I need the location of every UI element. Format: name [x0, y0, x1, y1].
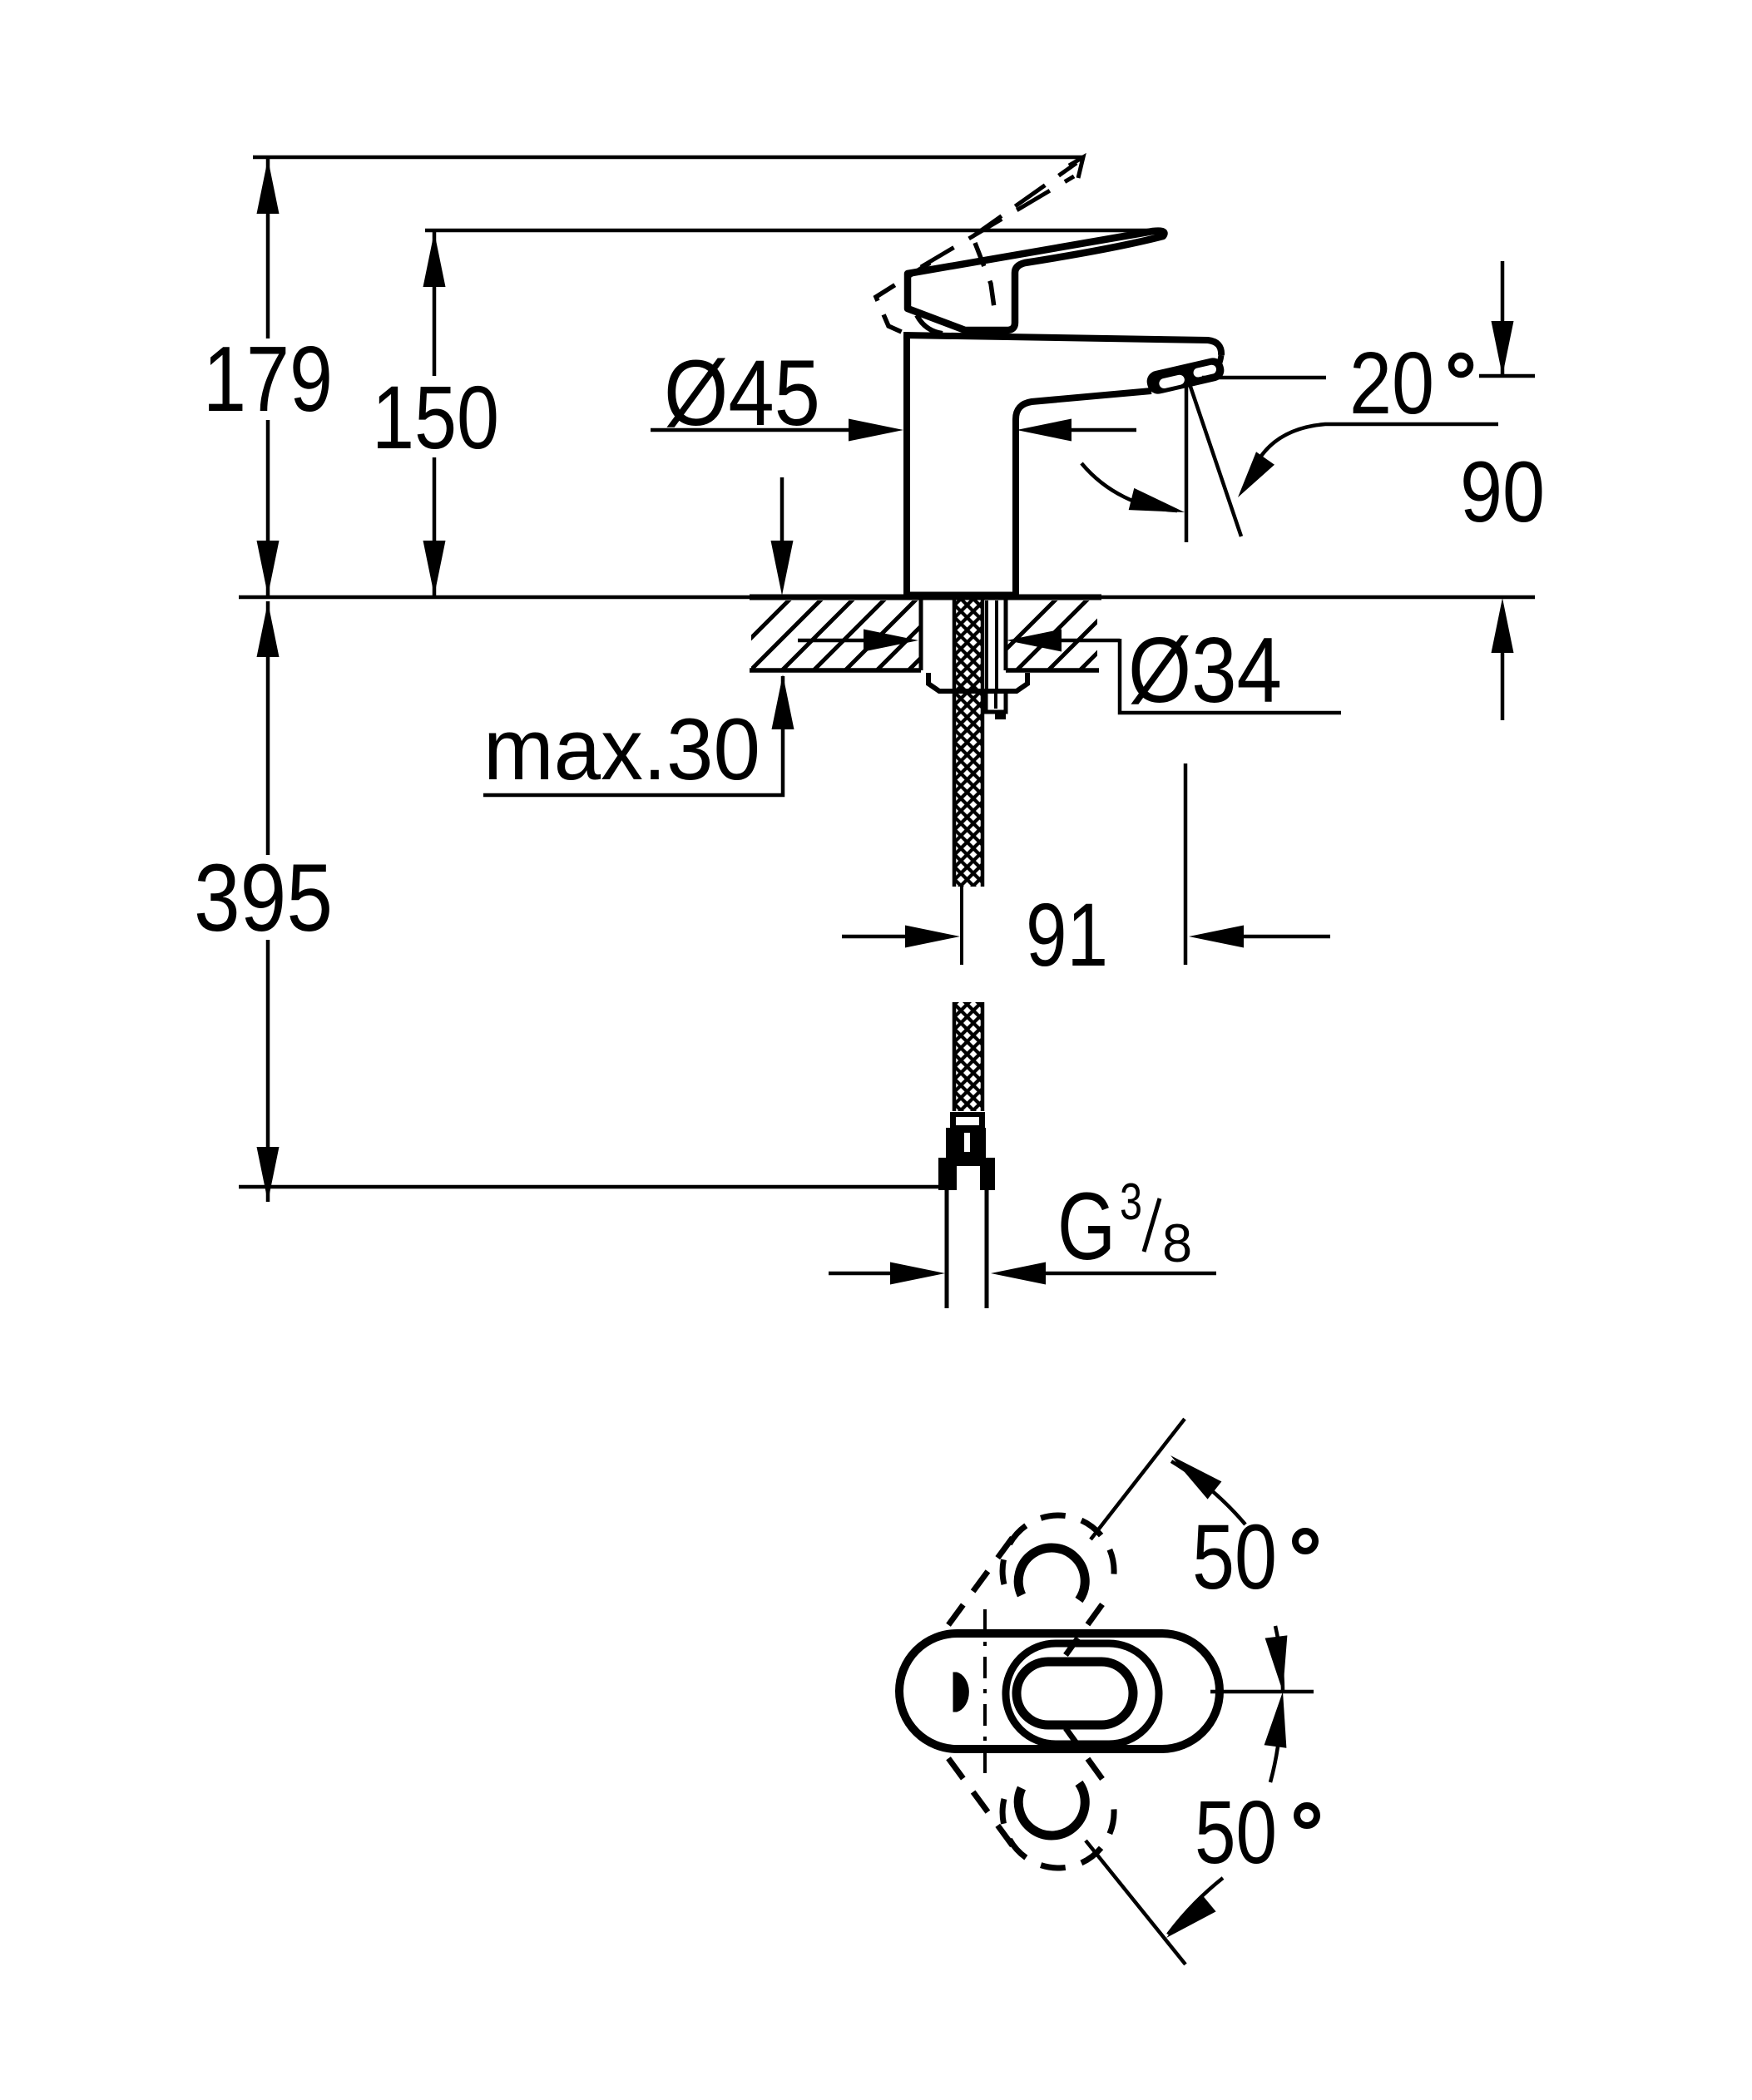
- component plan button dot: [953, 1673, 968, 1712]
- node 20deg leader arrow: [1238, 452, 1274, 497]
- node 90 dim top shaft: [1501, 261, 1505, 376]
- node 150 dimension up arrow: [423, 232, 446, 287]
- component handle raised dashed pivot right: [975, 243, 996, 319]
- svg-text:3: 3: [1120, 1174, 1142, 1231]
- node G38 dim line left: [829, 1272, 890, 1276]
- node 20deg arc left arrow: [1129, 488, 1185, 512]
- component hose braided lower: [953, 1002, 983, 1111]
- wire bottom reference line (hose end): [239, 1185, 939, 1189]
- wire O34 leader elbow: [1120, 639, 1341, 713]
- node O45 right-pointing arrow: [849, 419, 903, 442]
- node 90 dim down arrow: [1492, 321, 1514, 376]
- component tailpipe: [947, 1190, 987, 1308]
- component counter hatching left: [715, 597, 1013, 674]
- wire 50deg upper arc b: [1275, 1626, 1283, 1692]
- svg-text:50: 50: [1192, 1506, 1277, 1608]
- component plan handle rotated down slot arc: [1018, 1783, 1085, 1836]
- component hose fitting body: [946, 1128, 986, 1158]
- component plan handle rotated up slot arc: [1018, 1548, 1085, 1600]
- node 150 dimension shaft upper: [433, 230, 437, 376]
- node label G38: [1057, 1174, 1192, 1280]
- component plan handle rotated down left side: [943, 1752, 1012, 1846]
- node label 90: [1460, 444, 1545, 541]
- wire faucet body top edge: [903, 335, 1221, 355]
- node max30 up arrow: [772, 674, 794, 729]
- node label 150: [372, 367, 499, 467]
- svg-text:395: 395: [194, 845, 333, 951]
- component plan handle rotated up left side: [943, 1538, 1012, 1632]
- node 150 dimension down arrow: [423, 541, 446, 595]
- wire 90 top reference tick: [1479, 374, 1535, 378]
- component counter hatching right: [982, 597, 1153, 674]
- component plan outer stadium: [899, 1633, 1220, 1749]
- node O34 right-pointing arrow: [864, 630, 918, 652]
- node 179 dimension up arrow: [257, 159, 280, 214]
- component shank stud lines: [987, 600, 997, 689]
- node label O45: [664, 341, 820, 445]
- svg-text:20: 20: [1349, 334, 1434, 432]
- component hose ferrule: [950, 1112, 985, 1128]
- node 395 dimension down arrow: [257, 1147, 280, 1202]
- node G38 left-pointing arrow: [991, 1262, 1046, 1285]
- component plan handle rotated down right side: [1066, 1728, 1102, 1779]
- svg-text:90: 90: [1460, 444, 1545, 541]
- svg-text:Ø34: Ø34: [1128, 619, 1282, 722]
- component plan handle rotated up right side: [1066, 1604, 1102, 1655]
- node label O34: [1128, 619, 1282, 722]
- component plan middle stadium: [1006, 1643, 1159, 1744]
- wire max30 underline: [483, 676, 783, 795]
- node deck pointer shaft: [780, 477, 784, 545]
- component hose nut: [938, 1158, 995, 1190]
- wire spray vertical line: [1185, 381, 1189, 542]
- node label max30: [483, 701, 760, 798]
- wire 20deg leader line A: [1202, 376, 1326, 380]
- component plan handle rotated down outer arc: [1002, 1793, 1114, 1868]
- component mounting washer: [928, 673, 1027, 691]
- node O34 left-pointing arrow: [1007, 630, 1062, 652]
- node label 50deg lower: [1195, 1781, 1317, 1882]
- wire 50deg lower arc b: [1270, 1747, 1278, 1782]
- node 50deg bowtie up arrow: [1265, 1692, 1287, 1748]
- component plan loop slot: [1017, 1662, 1133, 1725]
- wire spout underside: [1016, 391, 1151, 595]
- node label 179: [203, 328, 333, 431]
- component handle raised dashed upper edge: [972, 163, 1076, 237]
- wire faucet spout nose front: [1211, 355, 1221, 374]
- component handle lever solid: [908, 231, 1165, 330]
- node 50deg upper arc arrow: [1170, 1455, 1221, 1500]
- wire counter bottom left: [750, 668, 921, 673]
- wire hole wall right: [1004, 597, 1008, 670]
- wire plan horizontal centerline: [1210, 1690, 1314, 1694]
- wire 50deg lower arc a: [1168, 1878, 1223, 1934]
- node 91 left-pointing arrow: [1189, 926, 1244, 948]
- node 50deg lower arc arrow: [1166, 1895, 1216, 1938]
- svg-text:G: G: [1057, 1174, 1116, 1280]
- node 179 dimension shaft lower: [266, 420, 270, 595]
- node label 395: [194, 845, 333, 951]
- component plan handle rotated up outer arc: [1002, 1515, 1114, 1590]
- node O45 dimension line left: [651, 428, 849, 432]
- node O34 dim line left: [798, 639, 864, 643]
- wire top reference line (handle raised height): [253, 156, 1084, 160]
- svg-text:179: 179: [203, 328, 333, 431]
- node 91 dim line left: [842, 935, 905, 939]
- component hose braided upper: [953, 597, 983, 887]
- node 395 dimension shaft upper: [266, 601, 270, 855]
- wire 50deg lower line: [1086, 1841, 1185, 1964]
- node 150 dimension shaft lower: [433, 457, 437, 595]
- component handle raised dashed pivot outline: [876, 263, 930, 337]
- node 90 dim bottom shaft: [1501, 651, 1505, 720]
- wire hose centerline upper: [960, 887, 963, 965]
- node deck pointer down arrow: [771, 541, 794, 595]
- wire 20deg leader line B: [1250, 424, 1498, 479]
- wire counter bottom right: [1006, 668, 1099, 673]
- node 395 dimension shaft lower: [266, 940, 270, 1202]
- wire 91 extension line: [1184, 763, 1188, 965]
- wire faucet body left edge: [903, 336, 910, 595]
- wire plan vertical centerline: [983, 1609, 987, 1776]
- node 395 dimension up arrow: [257, 602, 280, 657]
- node 179 dimension shaft upper: [266, 157, 270, 338]
- svg-text:max.30: max.30: [483, 701, 760, 798]
- svg-text:8: 8: [1162, 1213, 1192, 1273]
- wire counter/deck line: [239, 595, 1535, 600]
- svg-text:Ø45: Ø45: [664, 341, 820, 445]
- node label 20deg: [1349, 334, 1471, 432]
- wire 20deg arc left: [1081, 463, 1177, 511]
- node 50deg bowtie down arrow: [1265, 1635, 1288, 1692]
- wire 50deg upper line: [1091, 1419, 1185, 1539]
- component handle raised dashed lower edge: [921, 176, 1074, 267]
- node handle front lower bevel: [917, 315, 943, 334]
- node label 50deg upper: [1192, 1506, 1315, 1608]
- node 91 dim line right: [1244, 935, 1330, 939]
- wire 50deg upper arc a: [1171, 1461, 1245, 1524]
- component handle raised tip solid: [1069, 157, 1083, 178]
- node O45 dimension line right: [1071, 428, 1136, 432]
- wire second reference line (spout height 150): [425, 229, 1161, 233]
- node O45 left-pointing arrow: [1017, 419, 1071, 442]
- node label 91: [1026, 884, 1108, 985]
- svg-text:50: 50: [1195, 1781, 1277, 1882]
- wire hole wall left: [919, 597, 923, 670]
- node G38 dim line right: [1046, 1272, 1216, 1276]
- node 179 dimension down arrow: [257, 541, 280, 595]
- wire spray 20deg slanted line: [1190, 384, 1241, 536]
- node O34 dim line right: [1062, 639, 1120, 643]
- node G38 right-pointing arrow: [890, 1262, 945, 1285]
- node 90 dim up arrow: [1492, 598, 1514, 653]
- component mounting stud: [986, 691, 1006, 719]
- wire faucet base line: [903, 592, 1019, 598]
- svg-text:150: 150: [372, 367, 499, 467]
- component aerator outlet slots: [1145, 356, 1226, 396]
- svg-text:91: 91: [1026, 884, 1108, 985]
- node 91 right-pointing arrow: [905, 926, 960, 948]
- wire counter top thick: [750, 595, 1101, 600]
